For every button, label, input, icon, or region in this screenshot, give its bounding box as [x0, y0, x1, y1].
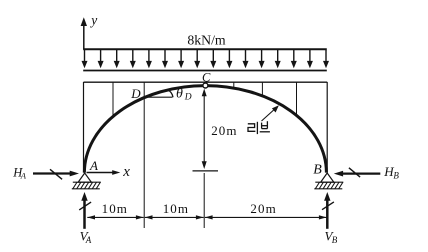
svg-text:20m: 20m: [250, 201, 276, 216]
svg-text:A: A: [20, 171, 27, 181]
svg-text:x: x: [122, 164, 130, 180]
svg-text:B: B: [313, 163, 322, 178]
svg-text:C: C: [202, 70, 211, 84]
svg-text:D: D: [184, 93, 192, 103]
svg-text:10m: 10m: [102, 201, 128, 216]
svg-text:θ: θ: [176, 86, 183, 101]
svg-text:B: B: [332, 235, 338, 245]
svg-text:20m: 20m: [211, 123, 237, 138]
svg-text:B: B: [393, 171, 399, 181]
svg-text:A: A: [89, 158, 98, 173]
svg-text:D: D: [130, 86, 141, 101]
svg-text:10m: 10m: [163, 201, 189, 216]
svg-text:A: A: [85, 235, 92, 245]
svg-text:8kN/m: 8kN/m: [187, 33, 226, 48]
svg-text:y: y: [89, 12, 97, 27]
